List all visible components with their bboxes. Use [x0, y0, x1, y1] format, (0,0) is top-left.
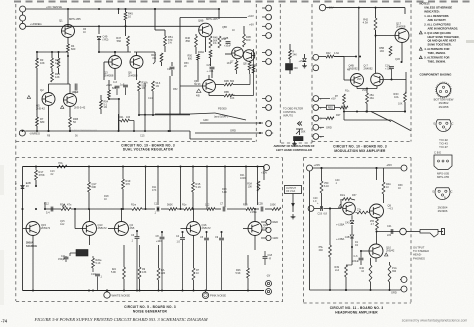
svg-text:INPUTS: INPUTS — [283, 114, 293, 118]
svg-text:2N5/42: 2N5/42 — [386, 249, 395, 253]
svg-text:1K: 1K — [104, 198, 107, 201]
svg-text:+10V: +10V — [261, 171, 267, 175]
svg-text:C-6: C-6 — [113, 81, 118, 84]
svg-text:60K: 60K — [92, 185, 97, 189]
svg-text:5. ALTERNATE FOR: 5. ALTERNATE FOR — [424, 56, 449, 60]
svg-text:GRD: GRD — [326, 125, 332, 129]
svg-text:MPS-U55: MPS-U55 — [69, 17, 81, 21]
svg-text:R2T: R2T — [336, 114, 341, 117]
svg-text:100uF: 100uF — [72, 91, 79, 94]
svg-text:47K: 47K — [152, 189, 157, 192]
svg-text:3. Q14 AND Q13 ARE: 3. Q14 AND Q13 ARE — [424, 31, 451, 35]
svg-text:+20V: +20V — [314, 163, 321, 167]
svg-text:UNLESS OTHERWISE: UNLESS OTHERWISE — [424, 5, 452, 9]
svg-text:SOURCE: SOURCE — [26, 244, 37, 248]
svg-text:(-R2): (-R2) — [103, 37, 109, 41]
svg-text:C-6: C-6 — [354, 255, 359, 258]
svg-text:-74: -74 — [1, 319, 8, 324]
svg-text:10K: 10K — [40, 61, 45, 65]
svg-text:2N3-5-42: 2N3-5-42 — [74, 106, 86, 110]
svg-text:MPS-U55: MPS-U55 — [437, 175, 450, 179]
svg-text:+6V: +6V — [249, 23, 254, 27]
svg-text:SUNK TOGETHER.: SUNK TOGETHER. — [428, 43, 452, 47]
svg-text:220: 220 — [161, 272, 166, 275]
svg-text:100K: 100K — [270, 204, 276, 207]
svg-text:100K: 100K — [240, 177, 246, 180]
svg-text:100: 100 — [126, 116, 131, 119]
svg-text:GRD: GRD — [203, 119, 209, 122]
svg-text:R1e: R1e — [182, 204, 187, 207]
svg-text:C15: C15 — [140, 135, 145, 138]
svg-text:LEFT HAND CONTROLLER: LEFT HAND CONTROLLER — [276, 148, 312, 152]
svg-text:NOTES:: NOTES: — [420, 2, 430, 6]
svg-text:10K: 10K — [248, 185, 253, 188]
svg-text:1. ALL RESISTORS: 1. ALL RESISTORS — [424, 14, 448, 18]
svg-text:24K: 24K — [293, 53, 298, 56]
svg-text:MPS-U05: MPS-U05 — [206, 17, 218, 21]
svg-text:Q2: Q2 — [40, 88, 44, 92]
svg-text:P5/300: P5/300 — [218, 107, 227, 111]
svg-text:5.9K: 5.9K — [235, 272, 240, 275]
svg-text:220: 220 — [387, 234, 392, 237]
svg-text:C: C — [452, 123, 454, 126]
svg-text:MODULATION MIX AMPLIFIER: MODULATION MIX AMPLIFIER — [334, 149, 386, 153]
svg-text:390: 390 — [392, 270, 397, 273]
svg-text:2N5: 2N5 — [357, 78, 362, 81]
svg-text:R1m: R1m — [131, 204, 136, 207]
svg-text:+5V: +5V — [331, 97, 336, 101]
svg-text:25A: 25A — [362, 89, 367, 92]
svg-text:C4B: C4B — [345, 236, 350, 239]
svg-text:Q8: Q8 — [243, 62, 247, 66]
svg-text:L14: L14 — [335, 269, 340, 272]
svg-text:Q8B: Q8B — [222, 26, 227, 29]
svg-text:5.1K: 5.1K — [96, 262, 101, 265]
svg-text:TO OBD FILTER: TO OBD FILTER — [283, 107, 303, 111]
svg-text:R42: R42 — [326, 52, 331, 55]
svg-text:T08G, 2N3906.: T08G, 2N3906. — [428, 60, 447, 64]
svg-text:5.9K: 5.9K — [111, 271, 116, 274]
svg-text:50K: 50K — [301, 131, 306, 134]
svg-text:C10: C10 — [91, 273, 96, 276]
svg-text:860: 860 — [186, 39, 191, 43]
svg-text:C2B: C2B — [258, 203, 263, 206]
svg-text:/W 93: /W 93 — [194, 83, 201, 86]
svg-text:47n: 47n — [67, 203, 72, 207]
svg-text:2. ALL CAPACITORS: 2. ALL CAPACITORS — [424, 22, 451, 26]
svg-text:+DC SENSE: +DC SENSE — [46, 5, 62, 9]
svg-text:6.8K: 6.8K — [222, 191, 227, 194]
svg-text:GRD: GRD — [273, 236, 279, 240]
svg-text:1K0: 1K0 — [380, 50, 385, 53]
svg-text:+-L5BA: +-L5BA — [336, 224, 345, 227]
svg-text:6.1K: 6.1K — [324, 185, 329, 188]
svg-text:560: 560 — [117, 39, 122, 43]
svg-text:2N4058: 2N4058 — [439, 105, 449, 109]
svg-text:470: 470 — [126, 182, 131, 186]
svg-text:HEADPHONE AMPLIFIER: HEADPHONE AMPLIFIER — [335, 310, 378, 314]
svg-text:220uF: 220uF — [352, 260, 359, 263]
svg-text:4/B: 4/B — [196, 95, 200, 98]
svg-text:+-.001: +-.001 — [207, 70, 215, 73]
svg-text:13K: 13K — [142, 271, 147, 274]
svg-text:4. ALTERNATE FOR: 4. ALTERNATE FOR — [424, 47, 449, 51]
svg-text:800: 800 — [188, 57, 193, 60]
svg-text:12K: 12K — [55, 75, 60, 79]
svg-text:1K0: 1K0 — [246, 39, 251, 42]
svg-text:2N4058: 2N4058 — [396, 25, 406, 29]
svg-text:C14: C14 — [148, 97, 153, 100]
svg-text:C2B: C2B — [224, 37, 229, 40]
svg-text:R5B: R5B — [224, 91, 229, 94]
svg-text:NOISE GENERATOR: NOISE GENERATOR — [133, 309, 168, 313]
svg-text:1K: 1K — [398, 187, 401, 190]
svg-text:R21: R21 — [119, 116, 124, 119]
svg-text:4B: 4B — [347, 69, 350, 72]
svg-text:470K: 470K — [39, 173, 45, 177]
svg-text:1K: 1K — [232, 29, 235, 32]
svg-text:C: C — [451, 191, 453, 194]
svg-text:10K: 10K — [398, 103, 403, 106]
svg-text:680: 680 — [40, 120, 45, 124]
svg-text:2N5172: 2N5172 — [202, 226, 212, 230]
svg-text:820: 820 — [71, 47, 76, 51]
svg-text:4.3A: 4.3A — [363, 20, 369, 24]
svg-text:C B E: C B E — [434, 150, 441, 154]
svg-text:860: 860 — [230, 80, 235, 83]
svg-text:C12: C12 — [44, 202, 49, 206]
svg-text:ARE 1/2 WATT.: ARE 1/2 WATT. — [428, 18, 447, 22]
svg-text:-R: -R — [269, 258, 272, 261]
svg-text:GRD: GRD — [391, 291, 397, 295]
svg-text:-UNREG: -UNREG — [29, 132, 40, 136]
svg-text:Q1B: Q1B — [395, 58, 400, 61]
svg-text:CONTROL: CONTROL — [283, 110, 297, 114]
svg-text:+10uF: +10uF — [224, 45, 231, 48]
svg-text:43A: 43A — [370, 97, 375, 100]
svg-text:FIGURE 5-8 POWER SUPPLY PRINTE: FIGURE 5-8 POWER SUPPLY PRINTED CIRCUIT … — [33, 317, 208, 322]
svg-text:WHITE NOISE: WHITE NOISE — [112, 293, 131, 297]
svg-text:R52: R52 — [173, 88, 178, 91]
svg-text:2N5172: 2N5172 — [41, 226, 51, 230]
svg-text:2N4092: 2N4092 — [364, 67, 374, 71]
svg-text:560K: 560K — [167, 204, 173, 207]
svg-text:C43: C43 — [345, 222, 350, 225]
svg-text:Q8 AND Q9 ARE HEAT: Q8 AND Q9 ARE HEAT — [428, 39, 457, 43]
svg-text:10A: 10A — [394, 96, 399, 99]
svg-text:2.45m: 2.45m — [250, 211, 257, 214]
svg-text:+100: +100 — [156, 240, 162, 243]
svg-text:2N5-42: 2N5-42 — [36, 106, 45, 110]
svg-text:27n: 27n — [357, 209, 362, 212]
svg-text:RED: RED — [273, 220, 279, 224]
svg-text:1K2: 1K2 — [205, 204, 210, 207]
svg-text:5.4: 5.4 — [46, 211, 50, 215]
svg-text:R1m: R1m — [340, 194, 345, 197]
svg-text:+.022: +.022 — [385, 68, 392, 71]
svg-text:RED: RED — [328, 107, 333, 110]
svg-text:OF VCA: OF VCA — [286, 190, 295, 193]
svg-text:INDICATED:: INDICATED: — [424, 9, 439, 13]
svg-text:R49A: R49A — [198, 51, 204, 54]
svg-text:2N5: 2N5 — [130, 226, 135, 230]
svg-text:R37: R37 — [352, 194, 357, 197]
svg-text:24K: 24K — [319, 249, 324, 252]
svg-text:2N5172: 2N5172 — [98, 226, 108, 230]
svg-text:1K: 1K — [83, 31, 86, 34]
svg-text:COMPONENT BASING: COMPONENT BASING — [420, 73, 453, 77]
svg-text:www.fantasyplanetscience.com: www.fantasyplanetscience.com — [69, 128, 97, 131]
svg-text:C21: C21 — [387, 225, 392, 228]
svg-text:4.3A: 4.3A — [334, 52, 339, 55]
svg-text:+L5A: +L5A — [299, 60, 305, 63]
svg-text:70A: 70A — [58, 161, 63, 165]
svg-text:PHONES: PHONES — [413, 256, 425, 260]
svg-text:2K: 2K — [184, 65, 187, 68]
svg-text:HEAT SUNK TOGETHER,: HEAT SUNK TOGETHER, — [428, 35, 460, 39]
svg-text:A12: A12 — [60, 223, 65, 226]
svg-text:+UNREG: +UNREG — [30, 22, 42, 26]
svg-text:-20V: -20V — [386, 163, 392, 167]
svg-text:5.1K: 5.1K — [196, 185, 202, 189]
svg-text:ARE IN MICROFARADS.: ARE IN MICROFARADS. — [428, 26, 459, 30]
svg-text:--4.3: --4.3 — [388, 207, 394, 211]
svg-text:2N4058: 2N4058 — [104, 73, 114, 77]
svg-text:R23: R23 — [243, 204, 248, 207]
svg-text:C24: C24 — [167, 67, 172, 71]
svg-text:10K: 10K — [230, 97, 235, 100]
svg-text:+10V: +10V — [248, 14, 255, 18]
svg-text:R4B: R4B — [224, 80, 229, 83]
svg-text:1K1: 1K1 — [227, 62, 232, 65]
svg-text:+-L5BA: +-L5BA — [336, 238, 345, 241]
svg-text:C19: C19 — [318, 213, 323, 216]
svg-text:Q1: Q1 — [59, 19, 63, 23]
svg-text:24K: 24K — [294, 67, 299, 70]
svg-text:T08C, 2N2904.: T08C, 2N2904. — [428, 51, 446, 55]
svg-text:-10/: -10/ — [266, 275, 271, 278]
svg-text:2N3906: 2N3906 — [438, 209, 448, 213]
svg-text:scanned by www.fantasyplanetsc: scanned by www.fantasyplanetscience.com — [402, 318, 468, 322]
svg-text:GRD: GRD — [230, 129, 236, 133]
svg-text:PINK NOISE: PINK NOISE — [210, 294, 226, 298]
svg-text:DUAL VOLTAGE REGULATOR: DUAL VOLTAGE REGULATOR — [123, 148, 174, 152]
svg-text:T/O-97: T/O-97 — [439, 145, 448, 149]
svg-text:Q6B: Q6B — [198, 19, 204, 23]
